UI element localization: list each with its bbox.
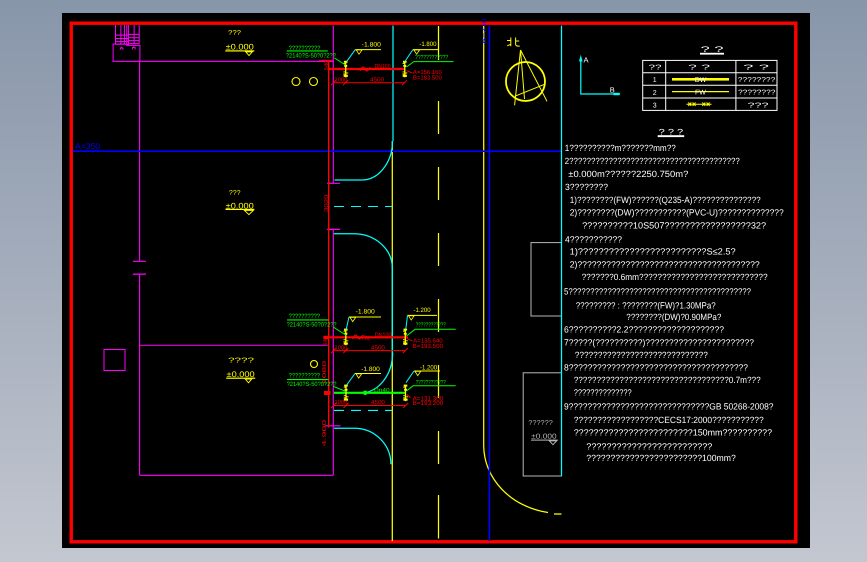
svg-text:???????0.6mm??????????????????: ???????0.6mm???????????????????????????? (582, 272, 768, 282)
valve V6 (403, 385, 408, 402)
svg-text:540: 540 (324, 61, 330, 71)
svg-text:?2140?S-50?0?2??: ?2140?S-50?0?2?? (287, 381, 338, 388)
svg-text:B: B (610, 86, 615, 95)
svg-text:5?????????????????????????????: 5???????????????????????????????????????… (564, 287, 751, 297)
compass circle (506, 62, 545, 101)
opening dashed line 1 (334, 206, 392, 208)
svg-text:2)????????(DW)???????????(PVC-: 2)????????(DW)???????????(PVC-U)????????… (570, 208, 784, 218)
gray rect 1 (531, 243, 562, 316)
svg-text:-1.200: -1.200 (414, 307, 432, 314)
svg-text:±0.000m??????2250.750m?: ±0.000m??????2250.750m? (568, 169, 688, 179)
svg-text:3: 3 (653, 103, 657, 110)
floor elevation label 2 (226, 358, 255, 383)
driveway 1 top flare (335, 141, 393, 180)
svg-text:????????????: ???????????? (416, 321, 446, 328)
svg-text:1)?????????????????????????S≤2: 1)?????????????????????????S≤2.5? (570, 246, 736, 256)
svg-text:-1.200: -1.200 (420, 364, 438, 371)
wall crossing tick bottom (324, 391, 331, 395)
pipe Dn40 green (334, 392, 405, 394)
svg-text:DW: DW (695, 77, 707, 84)
svg-text:B=183.500: B=183.500 (413, 75, 443, 82)
legend table grid (643, 60, 777, 110)
svg-text:? ?: ? ? (688, 65, 710, 72)
svg-text:?????????????????????????????: ????????????????????????????? (575, 350, 708, 360)
wall crossing tick mid (324, 336, 329, 339)
leader to coords mid (407, 339, 413, 342)
drawing frame (71, 23, 796, 542)
svg-text:???: ??? (228, 30, 241, 37)
building right wall (332, 26, 334, 476)
driveway 2 top flare (335, 353, 393, 393)
svg-text:4???????????: 4??????????? (565, 235, 622, 245)
gray rect 2 (523, 373, 561, 476)
svg-text:1000: 1000 (335, 344, 348, 351)
svg-text:? ?: ? ? (743, 65, 769, 72)
dimension line top (331, 80, 407, 85)
svg-text:????????: ???????? (738, 90, 776, 97)
svg-text:±0.000: ±0.000 (226, 43, 255, 52)
leader E6 (406, 371, 414, 383)
road right edge (484, 26, 562, 514)
green pipe label right bottom (407, 386, 456, 391)
leader E3 (346, 317, 349, 330)
opening dashed line 2 (334, 409, 392, 411)
svg-text:??????????: ?????????? (289, 313, 321, 320)
svg-text:2: 2 (653, 90, 657, 97)
svg-text:A=350: A=350 (75, 141, 100, 151)
svg-text:??????????10S507??????????????: ??????????10S507?????????????????32? (582, 221, 766, 231)
compass needle (515, 50, 547, 105)
svg-text:??????????: ?????????? (289, 373, 321, 380)
svg-text:7?????(??????????)????????????: 7?????(??????????)??????????????????????… (564, 338, 754, 348)
notes text (564, 143, 784, 463)
svg-text:??????????????????????????????: ??????????????????????????????????0.7m??… (574, 375, 761, 385)
dimension line bottom (331, 403, 408, 408)
cyan edge segment (391, 268, 393, 353)
svg-text:-1.800: -1.800 (361, 366, 380, 373)
svg-text:??: ?? (649, 65, 662, 72)
valve V1 (343, 61, 348, 78)
svg-text:???: ??? (229, 190, 241, 197)
svg-text:????????: ???????? (738, 77, 776, 84)
svg-text:FW,: FW, (362, 335, 371, 342)
staircase (116, 25, 140, 46)
dim tick top (319, 59, 333, 61)
leader set 2 (333, 327, 346, 335)
svg-text:FW: FW (695, 90, 706, 97)
leader set 1 (335, 58, 346, 65)
leader to coords bottom (407, 395, 411, 399)
svg-text:2)????????????????????????????: 2)?????????????????????????????????????? (570, 259, 760, 269)
svg-text:3020: 3020 (324, 195, 330, 213)
green pipe label right top (407, 62, 454, 67)
stair lobby box (113, 44, 140, 61)
valve V4 (403, 329, 408, 346)
svg-text:2?????????????????????????????: 2??????????????????????????????????????? (565, 156, 740, 166)
pipe DN100 top (329, 68, 405, 70)
svg-text:????????????????????????150mm?: ????????????????????????150mm?????????? (574, 428, 772, 438)
svg-text:B=193.500: B=193.500 (413, 343, 444, 350)
pipe FW DN100 (327, 336, 408, 338)
road upper cyan segment (392, 26, 394, 142)
svg-text:-1.800: -1.800 (419, 41, 437, 48)
svg-text:Dn40: Dn40 (374, 387, 390, 394)
axis arrow A (581, 60, 614, 94)
svg-text:???: ??? (748, 102, 769, 109)
svg-text:B=193.200: B=193.200 (413, 400, 444, 407)
svg-text:1000: 1000 (335, 76, 348, 83)
compass north glyph (507, 38, 520, 47)
svg-text:8?????????????????????????????: 8?????????????????????????????????????? (564, 363, 748, 373)
svg-text:? ?: ? ? (701, 45, 725, 54)
valve V2 (403, 61, 408, 78)
floor elevation label 1 (225, 30, 254, 56)
svg-text:6??????????2.2????????????????: 6??????????2.2???????????????????? (564, 325, 724, 335)
svg-text:????: ???? (228, 358, 254, 365)
road left edge yellow (391, 141, 393, 541)
svg-text:DN100: DN100 (375, 332, 392, 339)
left wall opening ticks (133, 261, 146, 274)
green junction dot (363, 391, 368, 396)
leader E5 (347, 374, 356, 386)
svg-text:9?????????????????????????????: 9??????????????????????????????GB 50268-… (564, 401, 774, 411)
elevation mark E2 (413, 41, 438, 54)
svg-text:±0.000: ±0.000 (227, 370, 256, 379)
leader set 3 (333, 386, 346, 391)
svg-text:?????????????????????????: ????????????????????????? (586, 442, 712, 452)
leader E2 (405, 50, 413, 62)
svg-text:?2140?S-50?0?2??: ?2140?S-50?0?2?? (287, 322, 338, 329)
svg-text:3????????: 3???????? (565, 182, 608, 192)
leader to coords (406, 71, 412, 74)
svg-text:A: A (584, 56, 589, 65)
svg-text:??????: ?????? (528, 420, 553, 427)
svg-text:1??????????m???????mm??: 1??????????m???????mm?? (565, 143, 676, 153)
elevation mark E6 (414, 364, 440, 375)
svg-text:1000: 1000 (335, 399, 348, 406)
svg-text:1)????????(FW)??????(Q235-A)??: 1)????????(FW)??????(Q235-A)????????????… (570, 195, 761, 205)
door marks (120, 46, 135, 49)
svg-text:B=210: B=210 (481, 18, 488, 44)
svg-text:????????? : ????????(FW)?1.30M: ????????? : ????????(FW)?1.30MPa? (576, 301, 716, 311)
driveway 1 bottom flare (334, 234, 393, 268)
driveway 2 bottom flare (334, 428, 391, 464)
svg-text:????????????: ???????????? (416, 379, 446, 386)
building bottom wall (140, 474, 334, 476)
green pipe label right mid (407, 329, 456, 336)
svg-text:-1.800: -1.800 (362, 42, 382, 49)
equipment pad square (104, 350, 125, 371)
valve V3 (344, 329, 349, 346)
floor elevation label mid (225, 190, 254, 215)
svg-text:??????????????: ?????????????? (574, 388, 632, 398)
pipe break symbol (360, 67, 370, 71)
svg-text:1: 1 (653, 77, 657, 84)
svg-text:4500: 4500 (371, 344, 386, 351)
svg-text:????????????: ???????????? (415, 54, 449, 61)
svg-text:????????(DW)?0.90MPa?: ????????(DW)?0.90MPa? (626, 312, 721, 322)
small circle pair (292, 78, 300, 86)
svg-text:????????????????????????100mm?: ????????????????????????100mm? (586, 453, 736, 463)
interior wall (140, 344, 328, 346)
elevation mark E4 (408, 307, 438, 320)
building left wall (139, 61, 141, 475)
svg-text:4500: 4500 (371, 399, 386, 406)
building top wall (113, 60, 334, 62)
svg-text:4500: 4500 (370, 76, 385, 83)
elevation mark E1 (355, 42, 381, 55)
dimension line mid (331, 348, 408, 353)
svg-text:-1.800: -1.800 (356, 309, 376, 316)
leader E4 (406, 315, 408, 329)
elevation mark E5 (355, 366, 381, 378)
valve V5 (344, 385, 349, 402)
leader E1 (347, 50, 356, 62)
elevation mark E3 (349, 309, 381, 322)
A=350 line (73, 150, 562, 152)
right wall ticks (325, 183, 340, 425)
svg-text:??????????????????CECS17:2000?: ??????????????????CECS17:2000??????????? (574, 415, 764, 425)
svg-text:?2140?S-50?0?2??: ?2140?S-50?0?2?? (286, 53, 337, 60)
blue boundary line (488, 26, 490, 541)
pipe break symbol mid (353, 335, 363, 339)
site boundary cyan line (561, 26, 563, 477)
water riser red line (328, 60, 330, 427)
svg-text:4.900: 4.900 (322, 420, 328, 447)
svg-text:DN100: DN100 (375, 63, 392, 70)
small circle mid (311, 361, 318, 368)
road centerline dashes (438, 26, 440, 60)
